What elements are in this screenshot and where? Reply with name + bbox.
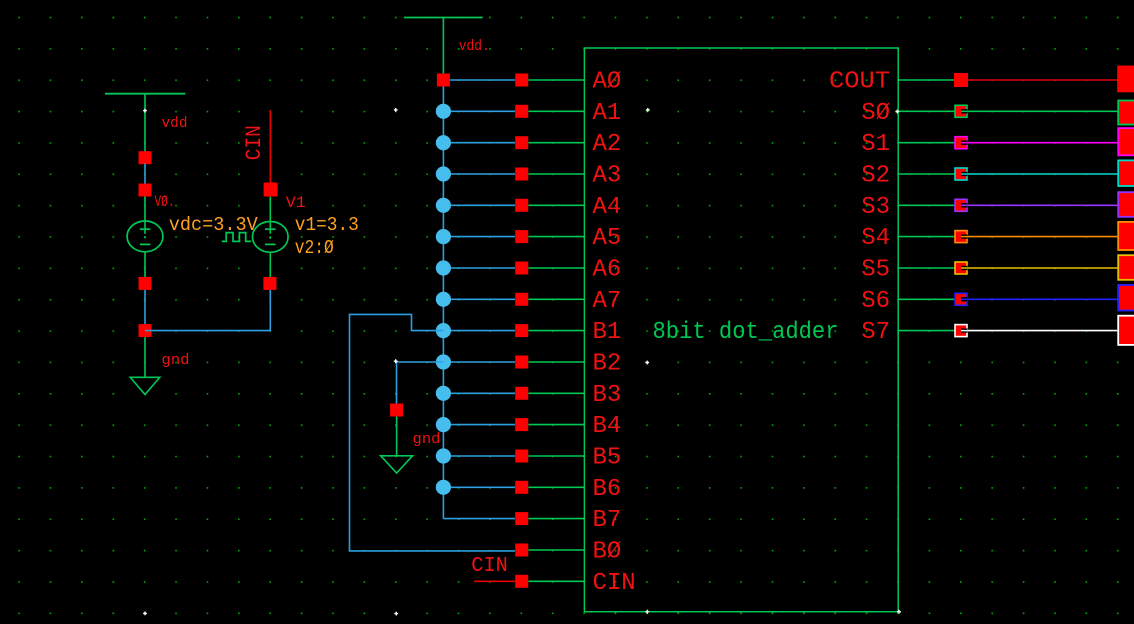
pin square SØ [955,105,967,117]
pin square: V1 minus terminal [263,277,276,290]
junction node A5 [436,229,451,244]
origin marker [897,610,901,614]
svg-text:V1: V1 [286,194,306,212]
wire gnd node to V1 minus (blue) [145,290,270,331]
svg-text:vdd.: vdd. [459,38,490,55]
svg-text:B3: B3 [593,382,622,409]
svg-text:B4: B4 [593,413,622,440]
stub B1 to box [528,330,584,332]
wire row B1 (blue) [443,330,515,332]
io pad S2 [1118,160,1134,186]
junction node A3 [436,166,451,181]
wire row B3 (blue) [443,392,515,394]
pin square S6 [955,293,967,305]
stub A3 to box [528,173,584,175]
junction node A7 [436,292,451,307]
pulse waveform icon [222,233,251,242]
wire B1/B0 loop (blue) [350,314,516,551]
stub B3 to box [528,392,584,394]
origin marker [143,612,147,616]
net wire COUT [968,79,1117,81]
svg-text:S6: S6 [861,288,890,315]
svg-text:S5: S5 [861,257,890,284]
wire CIN (red, to V1 plus) [269,110,271,183]
pin square: centre gnd [390,404,403,417]
svg-text:v1=3.3: v1=3.3 [295,214,359,236]
pin square S5 [955,262,967,274]
bus column wire (blue) [442,87,444,519]
origin marker [394,108,398,112]
svg-text:VØ.: VØ. [155,193,175,211]
stub S3 from box [898,204,954,206]
stub B7 to box [528,518,584,520]
svg-text:S3: S3 [861,194,890,221]
wire row B4 (blue) [443,424,515,426]
op block U1: 8bit dot_adder body [584,48,898,612]
wire row A1 (blue) [443,110,515,112]
net wire S7 [968,330,1117,332]
net wire S4 [968,236,1117,238]
svg-text:AØ: AØ [593,69,622,96]
io pad COUT [1117,66,1134,93]
net wire S6 [968,298,1117,300]
pin square B1 [515,324,528,337]
pin square: V0 plus terminal [139,184,152,197]
stub AØ to box [528,79,584,81]
pin square A1 [515,105,528,118]
voltage source V0 [127,197,163,278]
stub SØ from box [898,110,954,112]
net wire S1 [968,142,1117,144]
stub A7 to box [528,298,584,300]
wire row B5 (blue) [443,455,515,457]
junction node B6 [436,480,451,495]
svg-text:vdd: vdd [162,115,188,132]
vdd rail (top centre) [404,17,483,19]
junction node A4 [436,198,451,213]
stub S4 from box [898,236,954,238]
junction node B2 [436,354,451,369]
svg-text:v2:Ø: v2:Ø [295,237,334,259]
stub S1 from box [898,142,954,144]
stub A5 to box [528,236,584,238]
wire V0-to-gnd node (blue) [144,290,146,324]
wire CIN (red, bottom) [474,580,515,582]
pin square S3 [955,199,967,211]
net wire SØ [968,110,1117,112]
stub S6 from box [898,298,954,300]
stub S2 from box [898,173,954,175]
svg-text:CIN: CIN [242,125,267,160]
stub BØ to box [528,549,584,551]
io pad S1 [1118,128,1134,155]
pin square AØ [515,74,528,87]
svg-text:gnd: gnd [413,431,441,448]
pin square A7 [515,293,528,306]
io pad S4 [1118,222,1134,250]
io pad S5 [1118,255,1134,280]
pin square: V1 plus terminal [264,183,278,197]
pin square CIN [515,575,528,588]
ground symbol (left) [130,337,160,394]
pin square S7 [955,325,967,337]
origin marker [895,110,899,114]
junction node A6 [436,260,451,275]
pin square A6 [515,262,528,275]
origin marker [143,109,147,113]
stub S7 from box [898,330,954,332]
svg-text:A2: A2 [593,131,622,158]
junction node B3 [436,386,451,401]
pin square S2 [955,168,967,180]
stub B4 to box [528,424,584,426]
junction node B4 [436,417,451,432]
io pad S3 [1118,192,1134,217]
pin square: gnd node [139,324,152,337]
svg-text:B7: B7 [593,507,622,534]
svg-text:BØ: BØ [593,539,622,566]
io pad S6 [1118,285,1134,311]
stub S5 from box [898,267,954,269]
junction node B5 [436,448,451,463]
pin square A4 [515,199,528,212]
pin square S1 [955,137,967,149]
voltage source V1 [252,197,288,278]
svg-text:gnd: gnd [162,352,190,369]
svg-text:S1: S1 [861,131,890,158]
wire row B2 (blue) [443,361,515,363]
io pad SØ [1118,101,1134,125]
net wire S5 [968,267,1117,269]
pin square: V0 minus terminal [139,277,152,290]
svg-text:A6: A6 [593,257,622,284]
svg-text:CIN: CIN [593,570,636,597]
vdd rail (left) [105,93,185,95]
stub A6 to box [528,267,584,269]
pin square B7 [515,512,528,525]
pin square: top vdd rail pin (A0 node) [437,74,450,87]
wire vdd-to-V0 (blue) [144,164,146,185]
wire row AØ (blue) [450,79,515,81]
stub B6 to box [528,486,584,488]
junction node B1 [436,323,451,338]
svg-text:8bit dot_adder: 8bit dot_adder [653,319,839,346]
pin square B6 [515,481,528,494]
svg-text:A5: A5 [593,225,622,252]
origin marker [394,359,398,363]
svg-text:A1: A1 [593,100,622,127]
svg-text:B5: B5 [593,445,622,472]
pin square: left vdd rail pin [139,151,152,164]
io pad S7 [1118,316,1134,345]
pin square S4 [955,231,967,243]
svg-text:SØ: SØ [861,100,890,127]
ground symbol (centre) [381,417,413,474]
stub B2 to box [528,361,584,363]
wire row A2 (blue) [443,142,515,144]
wire row A6 (blue) [443,267,515,269]
wire row A3 (blue) [443,173,515,175]
stub B5 to box [528,455,584,457]
origin marker [645,610,649,614]
stub A1 to box [528,110,584,112]
origin marker [646,108,650,112]
svg-text:S7: S7 [861,319,890,346]
net wire S3 [968,204,1117,206]
origin marker [394,612,398,616]
svg-text:B2: B2 [593,351,622,378]
svg-text:A3: A3 [593,163,622,190]
pin square A2 [515,136,528,149]
svg-text:A7: A7 [593,288,622,315]
svg-text:S2: S2 [861,163,890,190]
svg-text:COUT: COUT [829,69,890,96]
wire row B7 (blue) [443,518,515,520]
stub A2 to box [528,142,584,144]
junction node A2 [436,135,451,150]
wire row A5 (blue) [443,236,515,238]
stub A4 to box [528,204,584,206]
origin marker [645,361,649,365]
pin square BØ [515,544,528,557]
svg-text:A4: A4 [593,194,622,221]
wire row A7 (blue) [443,298,515,300]
pin square B4 [515,418,528,431]
pin square A5 [515,230,528,243]
svg-text:CIN: CIN [471,555,508,578]
net wire S2 [968,173,1117,175]
wire row A4 (blue) [443,204,515,206]
svg-text:B1: B1 [593,319,622,346]
svg-text:B6: B6 [593,476,622,503]
pin square B5 [515,450,528,463]
wire row B6 (blue) [443,486,515,488]
junction node A1 [436,104,451,119]
stub CIN to box [528,580,584,582]
pin square A3 [515,168,528,181]
svg-text:S4: S4 [861,225,890,252]
pin square B2 [515,356,528,369]
stub COUT from box [898,79,954,81]
wire B2-to-gnd (blue) [397,362,444,404]
pin square B3 [515,387,528,400]
pin square COUT [954,73,968,87]
